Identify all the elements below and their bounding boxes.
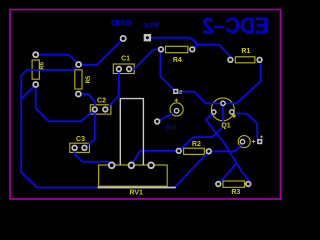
capacitor C1 body — [113, 64, 134, 74]
wire R6.bottom to C2.left — [36, 85, 95, 122]
wire C5.neg to pad D — [157, 111, 176, 122]
resistor R3 body — [223, 181, 245, 187]
board edge (Edge.Cuts outline) — [10, 10, 281, 200]
svg-text:R5: R5 — [86, 75, 92, 83]
svg-text:R4: R4 — [173, 57, 182, 64]
pads R6 — [32, 51, 39, 58]
silkscreen net labels (blue, mirrored) — [111, 13, 269, 132]
wire GND net: R6.top to R5.top — [36, 55, 79, 65]
pads R3 — [215, 181, 221, 187]
wire R2.right to C4.neg — [209, 142, 243, 151]
capacitor C4 pin1 tick — [260, 136, 263, 139]
svg-text:GND: GND — [111, 18, 132, 27]
svg-text:RV1: RV1 — [129, 189, 143, 196]
wire C5.pos / Q1.top / R1.right net — [176, 60, 261, 104]
capacitor C5 body circle — [170, 103, 183, 116]
svg-text:EDC–2: EDC–2 — [202, 13, 269, 38]
svg-text:Vcc: Vcc — [142, 20, 159, 29]
resistor R2 body — [184, 148, 205, 154]
svg-text:C2: C2 — [97, 98, 106, 105]
capacitor C2 body — [90, 105, 111, 114]
pads R4 — [158, 46, 164, 52]
pad C5 negative — [174, 108, 180, 114]
svg-text:9\0: 9\0 — [166, 125, 177, 132]
svg-text:Q1: Q1 — [221, 123, 230, 130]
wire Vcc net: Vcc pad to R1.left — [147, 38, 230, 60]
pad C4 negative — [240, 139, 246, 145]
wire big net: R5.top down left side to bottom and R2.right — [21, 65, 209, 187]
RV1 body outline (white) — [120, 99, 143, 166]
svg-text:R2: R2 — [192, 141, 201, 148]
pads RV1 — [108, 162, 116, 170]
svg-text:R3: R3 — [231, 189, 240, 196]
capacitor C5 plus mark — [175, 98, 179, 102]
wire Q1.right to C4.pos — [232, 112, 260, 141]
PCB layout: EDC-2 board, bottom copper view — [0, 0, 290, 210]
pads R1 — [227, 57, 233, 63]
svg-text:R1: R1 — [241, 48, 250, 55]
resistor R6 body — [32, 60, 39, 79]
capacitor C3 body — [70, 143, 90, 152]
wire RV1.mid to R2.left — [131, 151, 178, 165]
wire R6.bottom to left side line — [21, 85, 36, 100]
wire R4.left to C5.pos — [160, 49, 175, 91]
potentiometer RV1 body — [99, 165, 168, 186]
resistor R1 body — [235, 57, 255, 63]
silkscreen reference labels (yellow) — [39, 48, 250, 196]
transistor Q1 body circle — [211, 98, 234, 121]
capacitor C4 body circle — [238, 136, 250, 148]
wire Vcc net branch: R4.right to Vcc line — [192, 45, 197, 50]
wire GND net: GND pad to R5.top — [79, 39, 124, 65]
wire R4.left to C1.right — [129, 49, 161, 69]
pads Q1 — [220, 100, 226, 106]
transistor Q1 tab mark — [232, 114, 237, 119]
pad D (node) — [154, 118, 160, 124]
wire R5.bottom to C2.left to C3.right — [78, 94, 94, 148]
svg-text:C1: C1 — [121, 56, 130, 63]
pad C5 positive (square) — [173, 89, 178, 94]
svg-text:R6: R6 — [39, 61, 45, 69]
svg-text:5: 5 — [179, 90, 182, 96]
pads R2 — [176, 148, 182, 154]
pads — [32, 34, 262, 187]
svg-text:C3: C3 — [76, 136, 85, 143]
capacitor C4 plus mark — [252, 140, 256, 144]
pads C1 — [116, 66, 122, 72]
RV1 body bottom line (white) — [98, 187, 176, 189]
wire Q1.left to R3.right — [206, 112, 249, 184]
pads C3 — [71, 145, 77, 151]
wire Q1.top to R2.left — [179, 103, 223, 151]
pad Vcc (square) — [144, 34, 151, 41]
pad C4 positive (square) — [257, 139, 262, 144]
pad GND (round) — [120, 35, 127, 42]
wire branch to R3.left — [218, 163, 236, 184]
pads C2 — [92, 106, 98, 112]
wire C3.left to RV1.left — [75, 148, 112, 166]
wire C1.left to C2.right — [105, 69, 119, 109]
resistor R4 body — [166, 46, 188, 52]
pads R5 — [75, 61, 82, 68]
resistor R5 body — [75, 70, 82, 89]
